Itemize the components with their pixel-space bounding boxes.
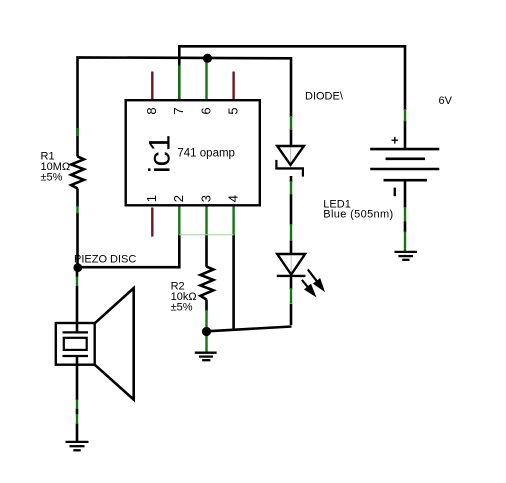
svg-text:Blue (505nm): Blue (505nm) bbox=[323, 209, 393, 221]
svg-text:PIEZO DISC: PIEZO DISC bbox=[74, 254, 136, 266]
svg-text:ic1: ic1 bbox=[144, 135, 177, 173]
svg-text:4: 4 bbox=[225, 195, 240, 202]
svg-text:±5%: ±5% bbox=[171, 302, 193, 314]
svg-text:1: 1 bbox=[144, 195, 159, 202]
svg-text:6V: 6V bbox=[439, 95, 453, 107]
svg-text:5: 5 bbox=[225, 107, 240, 114]
svg-text:8: 8 bbox=[144, 107, 159, 114]
svg-text:±5%: ±5% bbox=[41, 172, 63, 184]
svg-text:3: 3 bbox=[198, 195, 213, 202]
svg-text:741 opamp: 741 opamp bbox=[177, 147, 235, 159]
svg-text:DIODE\: DIODE\ bbox=[305, 90, 344, 102]
svg-text:7: 7 bbox=[171, 107, 186, 114]
svg-text:6: 6 bbox=[198, 107, 213, 114]
svg-text:2: 2 bbox=[171, 195, 186, 202]
svg-text:+: + bbox=[391, 133, 399, 148]
